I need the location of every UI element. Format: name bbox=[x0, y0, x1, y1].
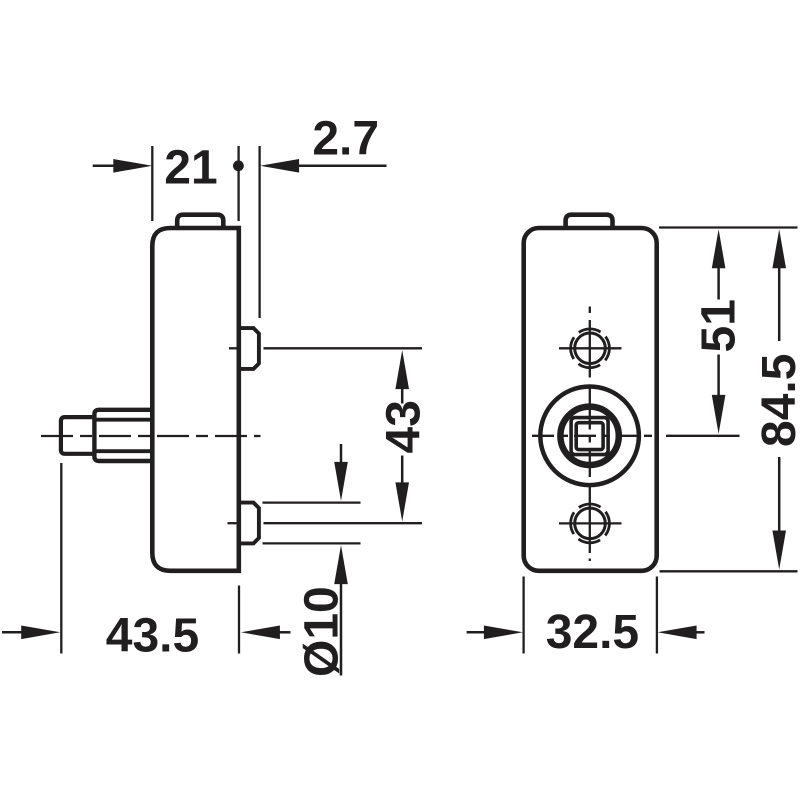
dimension 32.5: right arrowhead bbox=[658, 626, 697, 640]
dimension 21: arrow tail bbox=[93, 165, 115, 168]
dimension 2.7: arrowhead bbox=[260, 159, 299, 173]
dimension 43.5: right extension line bbox=[238, 586, 240, 654]
dimension d10: pin bottom extension line bbox=[263, 542, 361, 544]
left view: upper pin bbox=[239, 328, 259, 369]
left view: lower pin bbox=[239, 503, 259, 544]
dimension 21: arrowhead bbox=[113, 159, 152, 173]
dimension d10: upper dim line bbox=[340, 444, 343, 464]
dimension d10: lower arrowhead bbox=[334, 545, 348, 584]
dimension 43: dim line upper segment bbox=[401, 388, 404, 404]
dimension 51: dim line lower segment bbox=[717, 355, 720, 397]
dimension 84.5: upper arrowhead bbox=[772, 229, 786, 268]
dimension 51: upper arrowhead bbox=[712, 229, 726, 268]
svg-text:Ø10: Ø10 bbox=[296, 586, 349, 677]
dimension 43.5: left arrow tail bbox=[2, 631, 23, 634]
right view: boss horizontal centerline bbox=[532, 435, 652, 437]
dimension 2.7: right extension line bbox=[258, 146, 260, 318]
dimension 43.5: left arrowhead bbox=[21, 626, 60, 640]
dimension 21: left extension line bbox=[151, 146, 153, 221]
dimension d10: pin top extension line bbox=[263, 501, 361, 503]
lower pin centerline dash bbox=[228, 522, 237, 524]
dimension 43.5: right arrowhead bbox=[241, 626, 280, 640]
dimension d10: upper arrowhead bbox=[334, 462, 348, 501]
upper pin centerline / 43 upper extension bbox=[264, 347, 423, 349]
upper pin centerline dash bbox=[229, 347, 237, 349]
left view: top tab bbox=[177, 215, 223, 228]
svg-text:43.5: 43.5 bbox=[106, 610, 199, 663]
dimension 43: upper arrowhead bbox=[395, 350, 409, 389]
dimension 2.7: arrow tail bbox=[298, 165, 387, 168]
dimension 51/84.5: top extension line bbox=[659, 226, 798, 228]
dimension 43: dim line lower segment bbox=[401, 456, 404, 485]
dimension 32.5: left arrow tail bbox=[467, 631, 485, 634]
spindle spline line upper bbox=[94, 418, 150, 422]
dimension 51: lower arrowhead bbox=[712, 395, 726, 434]
dimension 32.5: left extension line bbox=[522, 577, 524, 654]
dimension 21/2.7 shared extension line bbox=[237, 146, 239, 221]
top screw hole crosshair bbox=[559, 347, 622, 349]
left view: body outline bbox=[152, 228, 239, 571]
left view: spindle tip bbox=[61, 417, 93, 454]
dimension 32.5: right extension line bbox=[656, 577, 658, 654]
svg-text:51: 51 bbox=[693, 299, 746, 352]
bottom screw hole core circle bbox=[575, 508, 606, 539]
dimension 51: dim line upper segment bbox=[717, 267, 720, 300]
right view: vertical centerline bbox=[589, 307, 591, 562]
svg-text:43: 43 bbox=[378, 400, 431, 453]
left view: spindle wide splined section bbox=[94, 410, 150, 461]
spindle square socket inner bbox=[576, 423, 603, 450]
left view: horizontal centerline bbox=[41, 435, 261, 437]
dimension 43: lower arrowhead bbox=[395, 482, 409, 521]
svg-text:32.5: 32.5 bbox=[546, 606, 639, 659]
dimension 84.5: lower arrowhead bbox=[772, 531, 786, 570]
dimension 84.5: dim line upper segment bbox=[778, 267, 781, 341]
top screw hole core circle bbox=[575, 333, 606, 364]
svg-text:84.5: 84.5 bbox=[753, 354, 800, 447]
dimension 84.5: bottom extension line bbox=[660, 570, 798, 572]
bottom screw hole thread dashed circle bbox=[571, 504, 610, 543]
central boss outer circle bbox=[540, 387, 639, 486]
spindle spline line lower bbox=[94, 449, 150, 453]
dimension 21/2.7: dot terminator bbox=[233, 160, 244, 171]
dimension 32.5: left arrowhead bbox=[484, 626, 523, 640]
dimension d10: lower dim line bbox=[340, 583, 343, 676]
bottom screw hole crosshair bbox=[559, 522, 622, 524]
top screw hole thread dashed circle bbox=[571, 329, 610, 368]
spindle square socket outer bbox=[571, 418, 608, 455]
dimension 43.5: left extension line bbox=[60, 463, 62, 654]
right view: plate body outline bbox=[524, 228, 657, 571]
svg-text:2.7: 2.7 bbox=[312, 113, 379, 166]
dimension 32.5: right arrow tail bbox=[696, 631, 705, 634]
dimension 51: centerline extension bbox=[666, 435, 740, 437]
dimension 43.5: right arrow tail bbox=[279, 631, 291, 634]
lower pin centerline / 43 lower extension bbox=[264, 522, 423, 524]
central boss ring bbox=[560, 407, 618, 465]
dimension 84.5: dim line lower segment bbox=[778, 457, 781, 532]
svg-text:21: 21 bbox=[164, 142, 217, 195]
right view: top tab bbox=[566, 215, 613, 228]
